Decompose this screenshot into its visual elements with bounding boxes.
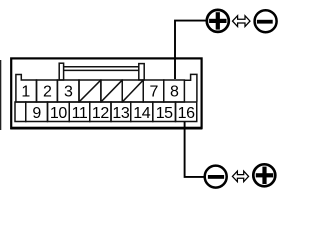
svg-text:11: 11 — [72, 105, 88, 122]
svg-text:3: 3 — [64, 83, 73, 100]
svg-text:14: 14 — [133, 105, 150, 122]
svg-text:2: 2 — [43, 83, 52, 100]
svg-text:9: 9 — [32, 105, 41, 122]
svg-text:16: 16 — [178, 105, 195, 122]
svg-text:10: 10 — [50, 105, 67, 122]
svg-text:15: 15 — [156, 105, 173, 122]
svg-text:8: 8 — [170, 83, 179, 100]
svg-text:12: 12 — [92, 105, 109, 122]
svg-text:7: 7 — [149, 83, 158, 100]
svg-text:13: 13 — [112, 105, 129, 122]
svg-text:1: 1 — [21, 83, 30, 100]
